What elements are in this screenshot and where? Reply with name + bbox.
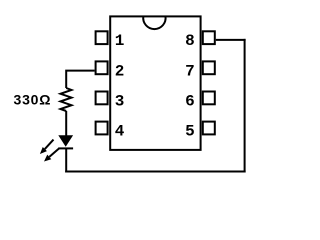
wire pin2 to resistor top (left then down) (66, 71, 94, 88)
LED D1 triangle (anode) (58, 135, 73, 147)
LED light emission arrow 2 (44, 148, 59, 161)
wire LED cathode to bottom rail (65, 148, 67, 172)
svg-text:2: 2 (115, 62, 125, 80)
svg-text:8: 8 (185, 32, 195, 50)
svg-text:1: 1 (115, 32, 125, 50)
pin 6 box (203, 92, 215, 105)
svg-text:6: 6 (185, 92, 195, 110)
resistor R1 zigzag (61, 88, 72, 111)
pin 8 box (203, 31, 215, 44)
right vertical wire (244, 39, 246, 173)
notch (pin-1 orientation semicircle) (143, 16, 165, 29)
svg-text:5: 5 (185, 123, 195, 141)
LED light emission arrow 1 (40, 140, 54, 154)
wire resistor bottom to LED anode (65, 111, 67, 137)
top wire to pin 8 (216, 39, 246, 41)
pin 3 box (96, 92, 108, 105)
pin 5 box (203, 122, 215, 135)
bottom wire rail (65, 171, 245, 173)
pin 1 box (96, 31, 108, 44)
LED cathode bar (58, 147, 73, 149)
pin 4 box (96, 122, 108, 135)
pin 2 box (96, 61, 108, 74)
IC body U1 (8-pin DIP) (110, 16, 200, 150)
svg-text:3: 3 (115, 92, 125, 110)
svg-text:7: 7 (185, 62, 195, 80)
svg-text:4: 4 (115, 123, 125, 141)
pin 7 box (203, 61, 215, 74)
svg-text:330Ω: 330Ω (14, 92, 52, 108)
